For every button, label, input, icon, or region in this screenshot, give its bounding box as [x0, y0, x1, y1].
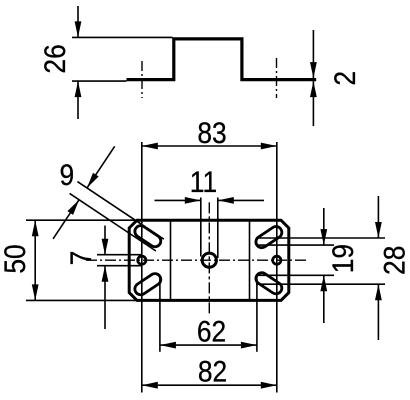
central hole (dia 11)	[202, 253, 216, 267]
dimension 7 upper line+arrow	[102, 226, 109, 255]
dimension 9 upper line+arrow	[87, 146, 115, 188]
svg-text:26: 26	[37, 44, 71, 73]
svg-text:11: 11	[190, 164, 217, 198]
dimension 7 lower line+arrow	[102, 266, 109, 329]
extension line 7 bottom	[97, 265, 142, 267]
dimension 19 upper line+arrow	[320, 208, 327, 245]
bend line right	[249, 222, 251, 299]
label 2	[327, 71, 361, 86]
extension line 28 top	[256, 237, 385, 239]
extension line 9 lower tangent	[70, 193, 156, 251]
label 83	[197, 115, 226, 149]
label 7	[63, 251, 97, 266]
extension line 11 left	[200, 198, 202, 257]
dimension 26 upper line+arrow	[75, 6, 82, 37]
right hole (dia 7)	[273, 256, 281, 264]
extension line 50 top	[26, 219, 137, 221]
extension line 28 bottom	[256, 283, 385, 285]
dimension 28 lower line+arrow	[375, 284, 382, 340]
bracket plate outline (chamfered rectangle)	[129, 220, 289, 300]
horizontal centerline	[86, 259, 309, 261]
extension line 19 top	[256, 244, 334, 246]
centerline left hole (side view)	[141, 61, 143, 98]
centerline right hole (side view)	[276, 58, 278, 98]
svg-text:9: 9	[60, 158, 75, 192]
extension line 19 bottom	[256, 274, 334, 276]
dimension 11 right line+arrow	[218, 197, 264, 204]
label 28	[377, 246, 410, 275]
dimension 28 upper line+arrow	[375, 196, 382, 238]
svg-text:82: 82	[198, 354, 227, 388]
dimension 83 line+arrows	[142, 143, 277, 150]
extension line 7 top	[97, 254, 142, 256]
label 26	[37, 44, 71, 73]
slot top-left	[133, 223, 163, 249]
label 82	[198, 354, 227, 388]
dimension 2 lower line+arrow	[310, 81, 317, 126]
extension line 62 right	[256, 277, 258, 352]
slot bottom-left	[133, 271, 163, 297]
hat profile of bracket (side view)	[127, 39, 317, 80]
label 11	[190, 164, 217, 198]
extension line 50 bottom	[26, 299, 137, 301]
slot top-right	[254, 224, 284, 250]
extension line 62 left	[159, 277, 161, 352]
label 50	[0, 244, 31, 273]
left hole (dia 7)	[138, 256, 146, 264]
svg-text:2: 2	[327, 71, 361, 86]
extension line through right hole	[276, 142, 278, 393]
svg-text:50: 50	[0, 244, 31, 273]
svg-text:62: 62	[197, 314, 226, 348]
dimension 19 lower line+arrow	[320, 275, 327, 323]
vertical centerline	[208, 202, 210, 316]
dimension 26 lower line+arrow	[75, 81, 82, 119]
bend line left	[170, 222, 172, 299]
dimension 50 line+arrows	[32, 220, 39, 300]
wire: top extension line of 26 dim	[72, 36, 173, 38]
label 19	[325, 244, 359, 273]
label 62	[197, 314, 226, 348]
extension line through left hole	[141, 142, 143, 393]
dimension 82 line+arrows	[142, 382, 277, 389]
svg-text:83: 83	[197, 115, 226, 149]
slot bottom-right	[254, 270, 284, 296]
dimension 2 upper line+arrow	[310, 30, 317, 78]
dimension 9 lower line+arrow	[53, 200, 79, 239]
extension line 9 upper tangent	[77, 182, 163, 240]
svg-text:7: 7	[63, 251, 97, 266]
dimension 62 line+arrows	[160, 342, 257, 349]
dimension 11 left line+arrow	[155, 197, 201, 204]
svg-text:19: 19	[325, 244, 359, 273]
svg-text:28: 28	[377, 246, 410, 275]
label 9	[60, 158, 75, 192]
wire: bottom extension line of 26 dim	[72, 80, 127, 82]
extension line 11 right	[217, 198, 219, 259]
